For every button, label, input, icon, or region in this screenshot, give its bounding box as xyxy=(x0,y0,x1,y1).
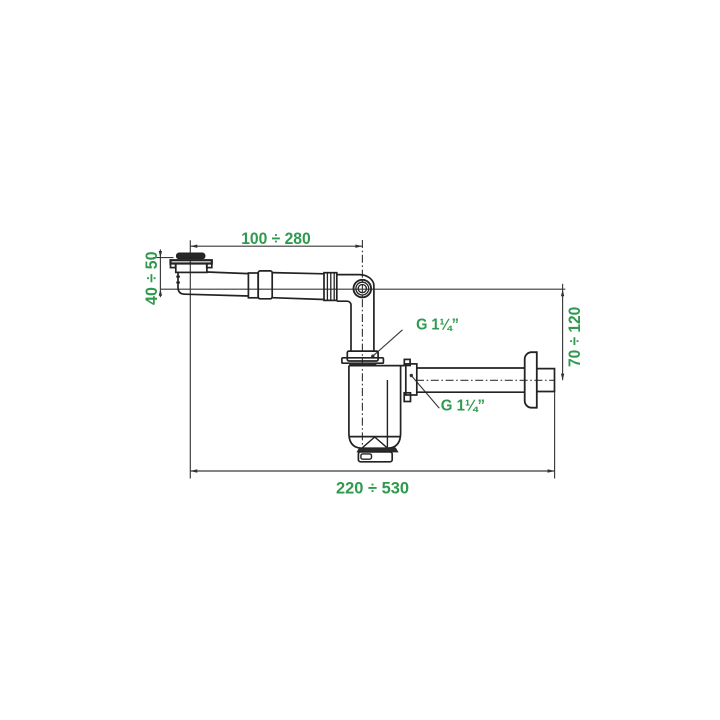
svg-text:220 ÷ 530: 220 ÷ 530 xyxy=(336,480,409,498)
svg-text:40 ÷ 50: 40 ÷ 50 xyxy=(143,251,161,305)
svg-text:100 ÷ 280: 100 ÷ 280 xyxy=(241,230,311,248)
svg-text:G 1¼”: G 1¼” xyxy=(441,398,485,415)
svg-text:70 ÷ 120: 70 ÷ 120 xyxy=(566,307,584,367)
svg-text:G 1¼”: G 1¼” xyxy=(416,317,459,334)
